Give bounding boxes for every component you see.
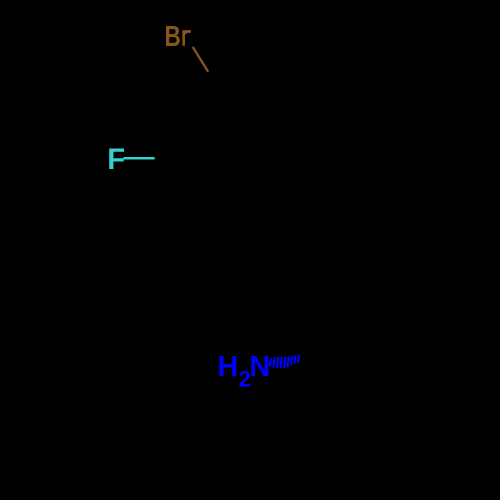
hash mark 8 — [295, 355, 296, 363]
hash mark 9 — [298, 355, 299, 363]
bond C-F (cyan stub) — [123, 157, 154, 160]
svg-text:B: B — [165, 19, 181, 52]
hash mark 2 — [274, 357, 275, 367]
hash mark 6 — [288, 357, 289, 367]
hash mark 7 — [291, 356, 292, 365]
svg-text:H: H — [217, 351, 238, 383]
hash mark 3 — [277, 357, 278, 368]
hash mark 1 — [270, 358, 271, 367]
bond C-Br (brown stub) — [193, 47, 209, 72]
svg-text:N: N — [249, 351, 270, 383]
svg-text:F: F — [107, 143, 125, 176]
hashed wedge bond N-C (blue dashes) — [270, 355, 300, 369]
hash mark 5 — [284, 357, 285, 369]
hash mark 4 — [281, 357, 282, 368]
